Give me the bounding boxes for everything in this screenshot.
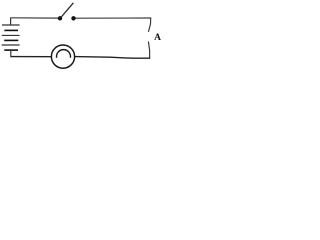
- svg-text:A: A: [154, 33, 161, 43]
- battery B: plate 3 long: [2, 34, 20, 36]
- battery B: plate 5 long: [2, 44, 20, 46]
- battery B: bottom stub: [10, 50, 12, 57]
- lamp L: filament arc: [56, 50, 70, 58]
- switch S: left contact dot: [58, 16, 62, 20]
- switch S: lever arm: [61, 3, 73, 17]
- battery B: top stub: [10, 18, 12, 25]
- battery B: plate 1 long: [2, 24, 20, 26]
- battery B: plate 6 short thick: [4, 49, 18, 51]
- switch S: right contact dot: [71, 16, 75, 20]
- wire top-left (battery to switch): [11, 17, 59, 19]
- battery B: plate 4 short thick: [4, 39, 18, 41]
- lamp L: outer circle: [51, 45, 74, 68]
- wire top-right (switch to top-right corner): [75, 17, 150, 19]
- battery B: plate 2 short thick: [4, 29, 18, 31]
- wire bottom-right (lamp to bottom-right corner): [75, 57, 151, 59]
- wire right upper segment: [148, 17, 150, 31]
- wire bottom-left (battery to lamp): [11, 56, 52, 58]
- wire right lower segment: [148, 41, 149, 58]
